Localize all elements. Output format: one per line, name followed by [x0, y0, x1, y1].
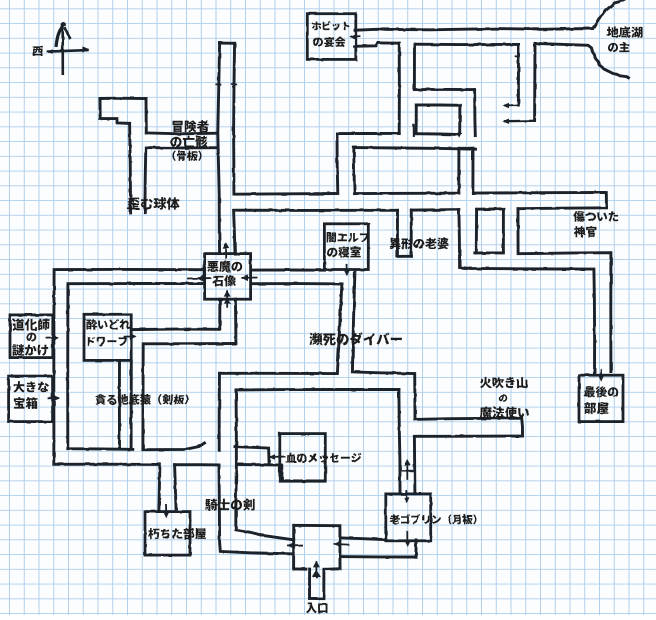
wall: west loop corridor north wall [337, 132, 399, 135]
wall: NS corridor east wall upper [234, 43, 235, 194]
arrowhead west in lake stub [503, 103, 509, 108]
arrow shaft west of entrance [288, 544, 302, 546]
label: 火吹き山 [480, 377, 527, 388]
label: 西 [33, 46, 43, 56]
label: ホビット [312, 21, 350, 31]
label: の [26, 333, 36, 342]
label: 悪魔の [207, 261, 242, 273]
wall: adventurer stub top [100, 97, 146, 100]
arrow shaft into last room [600, 370, 602, 378]
arrow shaft east of entrance [335, 543, 348, 546]
wall: corridor V1 east wall [413, 44, 416, 89]
room: old goblin box [386, 494, 431, 541]
wall: diver east wall + firetop corridor loop [352, 272, 522, 493]
wall: corridor H2 north wall a [235, 192, 337, 196]
wall: ogress stub west [396, 210, 399, 256]
label: 瀕死のダイバー [309, 332, 401, 345]
wall: pocket island bottom [416, 132, 459, 136]
arrow shaft west of statue [188, 277, 210, 279]
wall: rotten corridor west [159, 464, 160, 509]
wall: top corridor south wall seg1 [355, 43, 400, 46]
room: drunken dwarf box [84, 314, 131, 360]
arrow shaft below goblin room [406, 532, 408, 542]
wall+arrow shaft: lake stub south [505, 120, 535, 123]
label: 部屋 [584, 402, 608, 414]
label: 酔いどれ [86, 319, 130, 330]
arrowhead west into hobbit room [349, 34, 355, 39]
compass north arrowhead blob [61, 22, 66, 27]
compass horizontal [48, 50, 87, 51]
wall: pocket island top [416, 103, 460, 106]
wall: lake stub west wall [517, 44, 520, 105]
wall: adventurer branch south wall [146, 146, 217, 149]
wall: goblin corridor west [399, 390, 400, 494]
wall: blood corridor south c jog [237, 465, 326, 482]
wall: entrance east corridor cap [415, 540, 418, 557]
wall: adventurer stub bottom + step [101, 119, 130, 124]
label: 大きな [13, 381, 48, 392]
label: 入口 [306, 603, 328, 613]
arrow shaft north of statue [225, 244, 227, 258]
room: demon statue box [205, 254, 251, 300]
room: blood message box [280, 434, 326, 482]
arrow shaft east of chest box [49, 397, 59, 399]
room: entrance box bottom east [325, 567, 340, 570]
wall: path C south-east-south to last room [459, 210, 595, 375]
room: entrance box top+sides [294, 525, 340, 569]
label: 傷ついた [573, 211, 618, 222]
wall: below-dwarf middle [130, 361, 133, 448]
wall: corridor H2 south wall a [237, 209, 398, 212]
label: 異形の老婆 [389, 238, 448, 250]
label: 最後の [584, 386, 618, 397]
label: 謎かけ [12, 344, 48, 356]
wall: lake stub east wall [533, 43, 536, 120]
arrowhead down out of goblin room [405, 541, 411, 547]
wall: VC1 west upper [218, 373, 221, 450]
wall: sphere corridor west wall [130, 123, 131, 212]
arrow shaft into goblin room [405, 491, 407, 500]
wall: corridor H2 north wall c + east cap [473, 192, 607, 207]
arrowhead down into last room [598, 376, 604, 382]
label: （骨板） [172, 151, 201, 161]
wall: pocket2 bottom [475, 251, 503, 254]
wall: diver west branch south [236, 388, 399, 391]
wall: VC1 west lower + entrance west corridor south [219, 465, 294, 554]
wall: west loop outer [54, 269, 205, 464]
wall: north stub cap [460, 147, 473, 150]
label: 朽ちた部屋 [148, 528, 206, 539]
door tick west [216, 83, 220, 85]
wall: entrance stem west [308, 569, 311, 598]
wall: north stub east wall [471, 148, 474, 192]
wall: statue south corridor east [234, 299, 237, 343]
room: entrance box bottom west [294, 567, 306, 570]
arrowhead up statue north [223, 242, 230, 248]
wall: entrance east corridor north [342, 538, 386, 540]
wall: top corridor south wall seg3 + lake shore lower [535, 43, 629, 77]
wall: entrance stem cap [310, 597, 324, 600]
arrowhead east out of dwarf room [130, 333, 136, 339]
wall: entrance stem east [322, 569, 325, 598]
wall: west loop corridor south wall [356, 148, 476, 150]
wall: corridor H2 north wall b [355, 192, 459, 195]
arrowhead down into goblin room [404, 497, 410, 503]
arrow shaft south of statue [226, 291, 228, 307]
wall: ogress stub east [410, 210, 413, 256]
wall: main top corridor north wall + lake shore upper [355, 0, 624, 30]
label: の [499, 394, 507, 402]
wall: ogress stub cap [397, 255, 411, 258]
wall: path B south-east-south to last room [518, 209, 611, 372]
label: 老ゴブリン（月板） [390, 514, 477, 524]
wall: pocket island left [415, 105, 418, 134]
arrowhead down at pocket island SE [457, 133, 462, 138]
room: dark elf bedroom box [324, 224, 368, 270]
arrowhead down out of elf box [344, 270, 350, 276]
label: の亡骸 [170, 136, 207, 148]
wall: blood corridor north b [143, 443, 205, 450]
wall: descending corridor east wall [352, 148, 356, 194]
arrow shaft east of jester box [47, 336, 57, 338]
wall: entrance east corridor south [340, 555, 416, 558]
arrowhead east out of chest box [54, 395, 60, 401]
wall: NS corridor west wall [218, 43, 220, 254]
label: 貪る地底猿（剣板） [95, 394, 188, 405]
wall: VC1 east + entrance west corridor north [236, 390, 294, 540]
arrowhead down into rotten room [163, 512, 169, 518]
label: 道化師 [12, 319, 49, 331]
room: hobbit banquet box [307, 14, 356, 60]
label: 魔法使い [480, 407, 529, 419]
arrow shaft above goblin room [406, 462, 408, 479]
arrowhead up entrance 1 [313, 561, 320, 568]
arrow shaft west in lake stub [505, 104, 518, 106]
arrowhead west of entrance [287, 543, 293, 549]
wall: top corridor south wall seg2 [415, 43, 519, 46]
wall: sphere corridor east wall upper [145, 99, 148, 133]
wall: blood corridor south b [175, 463, 219, 466]
arrowhead up above goblin room [404, 459, 411, 465]
wall: adventurer stub west cap [99, 99, 102, 119]
arrowhead up entrance 2 [312, 570, 321, 577]
door tick above goblin room [402, 470, 412, 472]
wall: NS corridor top cap [220, 42, 235, 45]
room: rotten room box [145, 512, 190, 555]
wall: statue east corridor north [251, 269, 324, 272]
label: の宴会 [313, 37, 345, 48]
compass east arrowhead [82, 46, 89, 52]
label: 歪む球体 [127, 197, 179, 210]
wall: diver corridor west + west branch north [220, 284, 342, 374]
compass north barb right [65, 29, 69, 38]
room: last room box [579, 375, 623, 421]
label: 闇エルフ [327, 232, 369, 242]
wall: corridor H2 south wall c [518, 206, 607, 210]
arrowhead west lake stub south [502, 119, 509, 125]
arrowhead west into statue from east [241, 275, 248, 281]
wall: pocket2 west [475, 209, 478, 253]
label: 石像 [212, 275, 236, 287]
arrowhead up statue south 1 [224, 290, 231, 296]
wall: adventurer branch north wall [146, 131, 217, 135]
label: 神官 [574, 226, 597, 237]
wall: pocket2 east [502, 209, 505, 253]
wall: NS corridor east wall lower [234, 210, 235, 253]
wall: statue south corridor west [218, 299, 221, 329]
label: 血のメッセージ [286, 453, 362, 463]
arrow shaft east of dwarf room [125, 335, 135, 337]
wall: below-dwarf east [141, 344, 144, 449]
wall: west loop inner [68, 284, 205, 450]
wall: north stub west wall [457, 148, 460, 193]
arrow shaft west of blood box [270, 456, 284, 458]
label: の寝室 [327, 247, 361, 258]
wall: rotten corridor east [175, 465, 176, 509]
wall: corridor V1 west wall [398, 43, 401, 133]
wall: dwarf corridor south [144, 342, 235, 345]
label: の主 [608, 42, 629, 52]
wall: dwarf corridor north [131, 328, 220, 331]
arrowhead west of blood box [269, 454, 275, 460]
wall: corridor H2 south wall b [411, 208, 458, 211]
room: jester riddle box [10, 315, 53, 358]
label: 冒険者 [173, 120, 209, 132]
arrow shaft entrance stem [315, 562, 317, 577]
arrowhead east out of jester box [52, 335, 58, 341]
arrowhead west into entrance [334, 541, 340, 547]
compass west arrowhead [47, 49, 53, 54]
arrow shaft below elf box [346, 265, 348, 272]
wall: pocket loop north wall [415, 88, 474, 91]
wall: sphere corridor east wall lower [143, 148, 147, 213]
wall: corridor H2 south wall over pocket2 [477, 207, 504, 210]
wall: pocket loop east wall [473, 90, 477, 136]
arrowhead west statue [197, 275, 204, 281]
door tick on lake stub wall [516, 56, 520, 57]
wall: stub left of pocket island [413, 125, 415, 136]
door tick east [232, 83, 236, 85]
wall: blood corridor north c + cap [235, 447, 269, 465]
room: big chest box [9, 376, 53, 422]
arrowhead up statue south 2 [224, 297, 231, 303]
arrow shaft into hobbit room [352, 35, 360, 37]
compass north barb left [56, 29, 61, 46]
label: ドワーフ [88, 336, 127, 346]
arrow shaft east of statue [242, 277, 256, 279]
wall: pocket island right [458, 105, 461, 133]
wall: below-dwarf west [118, 361, 121, 449]
wall: descending corridor west wall [336, 134, 340, 194]
arrow shaft into rotten room [165, 505, 167, 513]
label: 地底湖 [607, 26, 643, 38]
compass vertical [61, 25, 64, 74]
label: 宝箱 [14, 397, 38, 409]
wall: statue east corridor south [251, 282, 342, 285]
label: 騎士の剣 [205, 499, 254, 511]
